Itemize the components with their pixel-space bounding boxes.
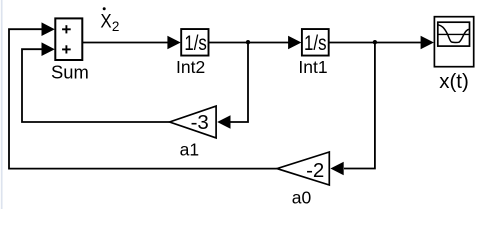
wire junction down to gain a1 [230, 43, 248, 123]
plus sign input 2 [62, 45, 71, 53]
wire Sum to Int2 [82, 42, 168, 44]
plus sign input 1 [62, 25, 71, 33]
label Sum [51, 61, 89, 82]
arrowhead into Scope [421, 36, 434, 50]
wire Int1 to Scope [329, 42, 421, 44]
svg-text:a1: a1 [180, 139, 199, 159]
svg-text:-3: -3 [191, 111, 209, 134]
svg-text:X: X [100, 10, 111, 32]
svg-text:Sum: Sum [51, 61, 89, 82]
label Int1 [298, 57, 327, 77]
svg-text:Int1: Int1 [298, 57, 327, 77]
label a1 [180, 139, 199, 159]
svg-text:-2: -2 [306, 159, 324, 182]
arrowhead into Int1 [288, 36, 301, 50]
junction node to a1 [246, 40, 250, 44]
wire a0 feedback to Sum top input [9, 29, 277, 168]
svg-text:1/s: 1/s [304, 31, 327, 55]
gain a1 triangle [170, 106, 217, 138]
svg-text:a0: a0 [292, 188, 312, 208]
svg-text:1/s: 1/s [184, 31, 207, 55]
arrowhead into Sum top input [42, 22, 55, 36]
wire a1 feedback to Sum bottom input [22, 49, 170, 122]
arrowhead into gain a0 [330, 162, 343, 176]
block Int1 [302, 29, 329, 56]
svg-text:2: 2 [112, 19, 120, 34]
window edge line [1, 0, 3, 209]
signal label X2 dot [100, 7, 119, 34]
block Sum [55, 18, 82, 60]
arrowhead into gain a1 [217, 115, 230, 129]
svg-text:Int2: Int2 [176, 57, 205, 77]
junction node to a0 [373, 40, 377, 44]
svg-text:x(t): x(t) [439, 70, 469, 93]
block Int2 [181, 29, 208, 56]
label a0 [292, 188, 312, 208]
block Scope x(t) [434, 17, 473, 67]
gain a0 triangle [277, 152, 329, 185]
label Int2 [176, 57, 205, 77]
arrowhead into Sum bottom input [42, 42, 55, 56]
label x(t) [439, 70, 469, 93]
arrowhead into Int2 [167, 36, 180, 50]
wire junction down to gain a0 [344, 43, 375, 169]
wire Int2 to Int1 [209, 42, 289, 44]
